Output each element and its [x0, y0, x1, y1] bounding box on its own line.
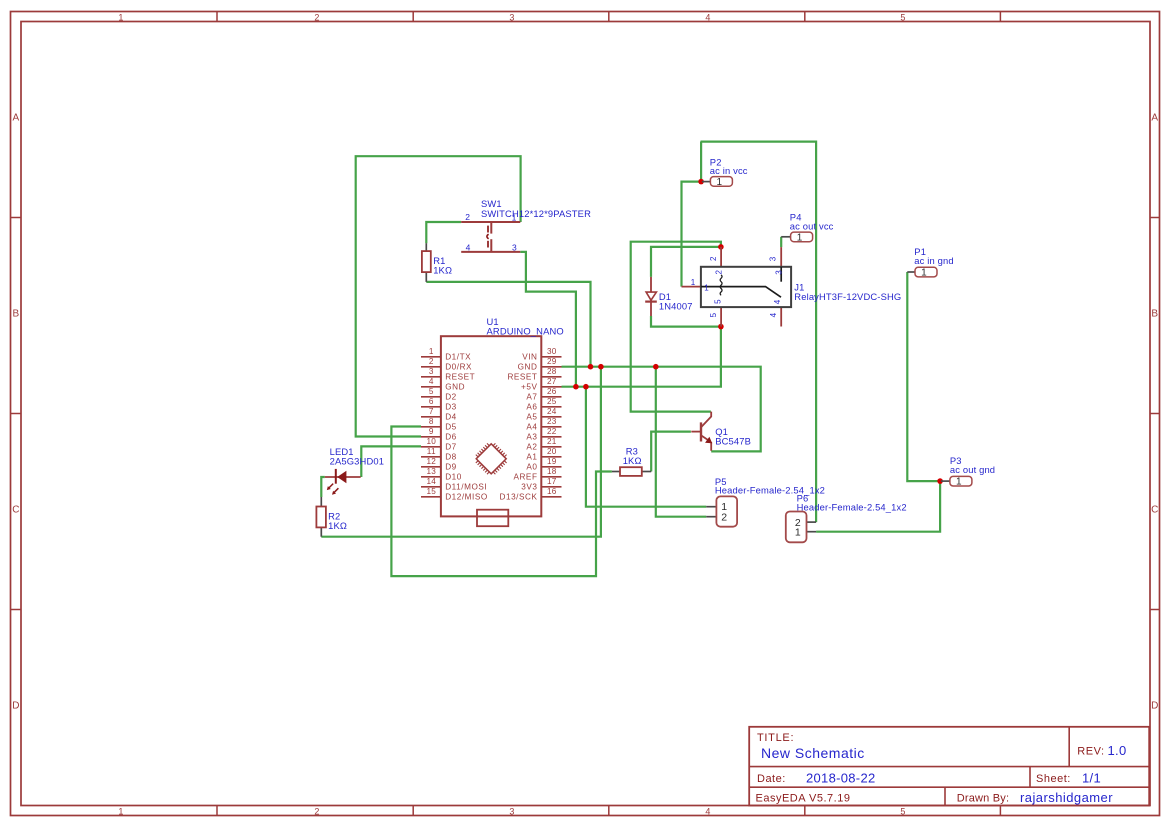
svg-text:4: 4 [769, 312, 778, 317]
svg-text:A6: A6 [526, 403, 537, 412]
svg-text:3: 3 [509, 12, 514, 22]
svg-text:4: 4 [466, 242, 471, 252]
svg-text:25: 25 [547, 397, 557, 406]
resistor R1 1K [422, 243, 452, 282]
svg-text:2: 2 [314, 806, 319, 816]
svg-text:C: C [1151, 504, 1158, 515]
svg-text:26: 26 [547, 387, 557, 396]
svg-text:A0: A0 [526, 463, 537, 472]
relay J1 RelayHT3F-12VDC-SHG [682, 247, 902, 327]
wire R3 right to Q1 base [651, 432, 691, 472]
svg-text:D4: D4 [445, 413, 457, 422]
svg-text:1: 1 [717, 177, 723, 188]
svg-text:D12/MISO: D12/MISO [445, 493, 488, 502]
svg-text:11: 11 [427, 447, 436, 456]
svg-text:13: 13 [426, 467, 436, 476]
svg-text:SWITCH12*12*9PASTER: SWITCH12*12*9PASTER [481, 208, 591, 219]
svg-text:15: 15 [426, 487, 436, 496]
junction node 3 [653, 364, 659, 370]
svg-text:5: 5 [713, 299, 722, 304]
svg-text:2: 2 [465, 212, 470, 222]
svg-text:19: 19 [547, 457, 557, 466]
junction node 1 [588, 364, 594, 370]
svg-text:3V3: 3V3 [521, 483, 537, 492]
svg-text:8: 8 [429, 417, 434, 426]
svg-text:3: 3 [429, 367, 434, 376]
svg-text:D7: D7 [445, 443, 457, 452]
junction node 6 [698, 179, 704, 185]
svg-text:A: A [1151, 112, 1158, 123]
svg-text:2018-08-22: 2018-08-22 [806, 771, 876, 786]
svg-text:New Schematic: New Schematic [761, 745, 865, 761]
wire coil node to D1 anode [651, 247, 721, 277]
svg-text:28: 28 [547, 367, 557, 376]
LED LED1 [321, 446, 384, 497]
svg-text:1: 1 [797, 232, 803, 243]
svg-text:1: 1 [704, 284, 709, 293]
svg-text:D5: D5 [445, 423, 457, 432]
svg-text:14: 14 [426, 477, 436, 486]
svg-text:18: 18 [547, 467, 557, 476]
svg-text:A4: A4 [526, 423, 537, 432]
IC U1 ARDUINO_NANO [421, 316, 564, 526]
svg-text:2: 2 [709, 256, 718, 261]
svg-text:3: 3 [509, 806, 514, 816]
transistor Q1 BC547B [691, 412, 751, 451]
svg-text:1: 1 [921, 268, 927, 279]
svg-text:4: 4 [705, 12, 710, 22]
wire GND to R2 bottom [321, 367, 601, 537]
svg-text:2: 2 [314, 12, 319, 22]
svg-text:1: 1 [956, 477, 962, 488]
wire Q1 collector to relay coil node [631, 242, 721, 412]
svg-text:9: 9 [429, 427, 434, 436]
svg-text:16: 16 [547, 487, 557, 496]
svg-text:D6: D6 [445, 433, 457, 442]
connector P1 ac in gnd [907, 246, 953, 278]
svg-text:TITLE:: TITLE: [757, 732, 794, 744]
svg-text:Header-Female-2.54_1x2: Header-Female-2.54_1x2 [797, 501, 907, 512]
svg-text:AREF: AREF [513, 473, 537, 482]
svg-text:A3: A3 [526, 433, 537, 442]
svg-text:Date:: Date: [757, 773, 786, 785]
svg-text:D: D [1151, 700, 1158, 711]
svg-text:D0/RX: D0/RX [445, 363, 472, 372]
svg-text:1/1: 1/1 [1082, 771, 1101, 786]
svg-text:RelayHT3F-12VDC-SHG: RelayHT3F-12VDC-SHG [794, 291, 901, 302]
svg-text:A5: A5 [526, 413, 537, 422]
svg-text:1: 1 [795, 526, 801, 538]
wire D5 to R3 left [391, 427, 612, 577]
svg-text:Header-Female-2.54_1x2: Header-Female-2.54_1x2 [715, 485, 825, 496]
diode D1 1N4007 [645, 277, 692, 316]
svg-text:rajarshidgamer: rajarshidgamer [1020, 790, 1113, 805]
connector P4 ac out vcc [781, 212, 833, 244]
svg-text:RESET: RESET [445, 373, 475, 382]
svg-text:VIN: VIN [522, 353, 537, 362]
svg-text:20: 20 [547, 447, 557, 456]
svg-text:1: 1 [429, 347, 434, 356]
wire SW1 pin2 to R1 top [426, 222, 461, 243]
svg-text:RESET: RESET [507, 373, 537, 382]
svg-text:2: 2 [721, 511, 727, 523]
svg-text:6: 6 [429, 397, 434, 406]
wire P1 to P3 [907, 272, 941, 481]
svg-text:5: 5 [900, 12, 905, 22]
svg-text:D11/MOSI: D11/MOSI [445, 483, 487, 492]
svg-text:5: 5 [429, 387, 434, 396]
svg-text:29: 29 [547, 357, 557, 366]
svg-text:D9: D9 [445, 463, 457, 472]
svg-text:A: A [12, 112, 19, 123]
svg-text:3: 3 [769, 256, 778, 261]
svg-text:23: 23 [547, 417, 557, 426]
svg-text:ac in gnd: ac in gnd [914, 255, 953, 266]
svg-text:C: C [12, 504, 19, 515]
connector P6 Header-Female-2.54_1x2 [786, 492, 907, 542]
junction node 8 [718, 324, 724, 330]
wire P4 to J1 pin3 [780, 237, 782, 247]
svg-text:ac out gnd: ac out gnd [950, 464, 995, 475]
svg-text:A1: A1 [526, 453, 537, 462]
junction node 7 [718, 244, 724, 250]
connector P3 ac out gnd [941, 455, 995, 488]
svg-text:B: B [1151, 308, 1158, 319]
svg-text:D3: D3 [445, 403, 457, 412]
svg-text:2: 2 [429, 357, 434, 366]
svg-text:D1/TX: D1/TX [445, 353, 471, 362]
svg-text:4: 4 [773, 299, 782, 304]
wire +5V to P5 pin1 [586, 387, 706, 507]
wire R1 bottom to GND bus [426, 282, 590, 367]
svg-text:4: 4 [429, 377, 434, 386]
svg-text:24: 24 [547, 407, 557, 416]
resistor R3 1K [612, 446, 651, 476]
svg-text:1: 1 [118, 806, 123, 816]
svg-text:GND: GND [445, 383, 465, 392]
wire D6 to SW1 pin1 [356, 156, 521, 436]
svg-text:ARDUINO_NANO: ARDUINO_NANO [487, 325, 564, 336]
svg-text:A7: A7 [526, 393, 537, 402]
svg-text:D2: D2 [445, 393, 457, 402]
wire GND bus to Q1 emitter [562, 367, 761, 452]
svg-text:1KΩ: 1KΩ [433, 265, 452, 276]
wire SW1 pin3 to +5V bus [520, 252, 576, 387]
title block [749, 727, 1149, 806]
svg-text:10: 10 [426, 437, 436, 446]
svg-text:3: 3 [774, 270, 783, 275]
svg-text:ac in vcc: ac in vcc [710, 165, 748, 176]
wire P2 to vcc bus [700, 142, 702, 182]
svg-text:1.0: 1.0 [1108, 743, 1127, 758]
svg-text:REV:: REV: [1077, 746, 1104, 758]
svg-text:D8: D8 [445, 453, 457, 462]
connector P2 ac in vcc [702, 156, 748, 188]
svg-text:1: 1 [691, 278, 696, 287]
svg-text:Drawn By:: Drawn By: [957, 793, 1010, 805]
wire vcc top bus to P6 pin2 [701, 142, 817, 522]
wire GND to P5 pin2 [656, 367, 706, 517]
svg-text:A2: A2 [526, 443, 537, 452]
wire P2 node to J1 pin1 [682, 182, 702, 287]
svg-text:3: 3 [512, 242, 517, 252]
svg-text:21: 21 [547, 437, 557, 446]
svg-text:1KΩ: 1KΩ [328, 520, 347, 531]
svg-text:2A5G3HD01: 2A5G3HD01 [330, 456, 385, 467]
junction node 4 [573, 384, 579, 390]
svg-text:1N4007: 1N4007 [659, 300, 693, 311]
svg-text:D10: D10 [445, 473, 462, 482]
svg-text:+5V: +5V [521, 383, 537, 392]
svg-text:2: 2 [714, 270, 723, 275]
svg-text:ac out vcc: ac out vcc [790, 220, 834, 231]
junction node 9 [937, 478, 943, 484]
wire P6 pin1 to P3 node [816, 481, 940, 532]
svg-text:22: 22 [547, 427, 557, 436]
connector P5 Header-Female-2.54_1x2 [706, 476, 825, 527]
svg-text:B: B [12, 308, 19, 319]
svg-text:D13/SCK: D13/SCK [500, 493, 538, 502]
svg-text:D: D [12, 700, 19, 711]
svg-text:5: 5 [709, 312, 718, 317]
svg-text:1KΩ: 1KΩ [623, 455, 642, 466]
svg-text:30: 30 [547, 347, 557, 356]
wire +5V bus to J1 pin5 node [562, 327, 721, 387]
svg-text:Sheet:: Sheet: [1036, 773, 1071, 785]
svg-text:27: 27 [547, 377, 557, 386]
junction node 5 [583, 384, 589, 390]
svg-text:1: 1 [118, 12, 123, 22]
svg-text:BC547B: BC547B [715, 436, 751, 447]
wire D7 to LED1 anode [361, 446, 421, 477]
svg-text:7: 7 [429, 407, 434, 416]
svg-text:4: 4 [705, 806, 710, 816]
junction node 2 [598, 364, 604, 370]
svg-text:GND: GND [518, 363, 538, 372]
wire D1 cathode to J1 pin5 node [651, 316, 721, 327]
resistor R2 1K [316, 497, 347, 537]
svg-text:5: 5 [900, 806, 905, 816]
svg-text:12: 12 [426, 457, 436, 466]
svg-text:EasyEDA V5.7.19: EasyEDA V5.7.19 [756, 793, 851, 805]
switch SW1 [461, 198, 591, 252]
svg-text:17: 17 [547, 477, 557, 486]
